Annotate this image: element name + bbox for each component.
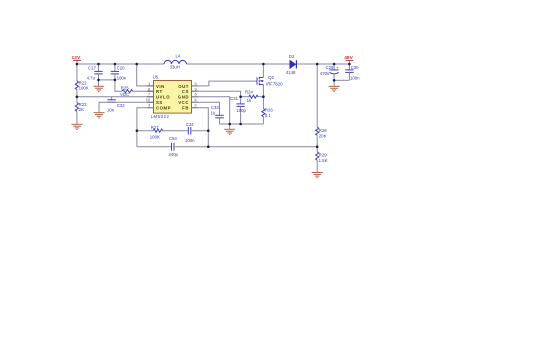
svg-text:6: 6 (195, 92, 197, 97)
svg-text:FB: FB (182, 105, 189, 110)
svg-text:100n: 100n (117, 76, 127, 81)
svg-text:D2: D2 (289, 54, 295, 59)
wire UVLO (77, 96, 154, 98)
resistor R28 (316, 127, 328, 147)
svg-text:1.5K: 1.5K (319, 158, 328, 163)
capacitor C31 (230, 96, 246, 124)
node VDC label (120, 92, 129, 97)
wire Q2 source to R26 (262, 97, 264, 109)
wire CS (192, 91, 241, 97)
ground under C17 (93, 86, 104, 91)
svg-text:1u: 1u (211, 111, 216, 116)
svg-text:340p: 340p (168, 152, 178, 157)
resistor R24 (241, 90, 264, 104)
svg-text:0.1: 0.1 (265, 113, 272, 118)
U5 pin names left (156, 84, 171, 111)
resistor R25 (121, 86, 154, 93)
svg-text:3: 3 (148, 103, 150, 108)
svg-text:33uH: 33uH (170, 64, 180, 69)
wire C17 bottom to ground (98, 80, 100, 86)
capacitor C34 (185, 122, 208, 143)
svg-text:Q2: Q2 (268, 75, 274, 80)
svg-text:C20: C20 (117, 65, 125, 70)
resistor R26 (262, 108, 274, 125)
junction dots (76, 63, 351, 148)
svg-text:C29: C29 (326, 65, 334, 70)
svg-text:100p: 100p (236, 108, 246, 113)
svg-text:SS: SS (156, 100, 163, 105)
svg-text:C33: C33 (211, 105, 219, 110)
wire ground stub (229, 124, 231, 129)
wire top rail right (297, 63, 349, 65)
wire C29-C30 bottoms (334, 79, 349, 81)
ground under C29 (329, 86, 340, 91)
inductor L4 (164, 54, 187, 70)
svg-text:4.7u: 4.7u (87, 76, 96, 81)
diode D2 (286, 54, 297, 75)
U5 pin numbers right (195, 81, 198, 108)
op-amp U5 LM5022 body (151, 75, 192, 120)
svg-text:7: 7 (148, 92, 150, 97)
svg-text:C30: C30 (351, 65, 359, 70)
transistor Q2 (257, 64, 283, 97)
wire top rail left (77, 63, 164, 65)
U5 pin numbers left (146, 81, 151, 108)
svg-text:R24: R24 (245, 90, 253, 95)
svg-text:C31: C31 (230, 96, 238, 101)
power port 12V (72, 55, 82, 64)
ground under R23 (72, 124, 83, 129)
wire C20 bottom to R25 (115, 80, 122, 91)
wire OUT to gate (192, 81, 257, 86)
svg-text:C17: C17 (88, 65, 96, 70)
svg-text:R27: R27 (151, 125, 159, 130)
svg-text:20K: 20K (319, 133, 327, 138)
resistor R23 (75, 97, 87, 124)
svg-text:VCC: VCC (178, 100, 189, 105)
svg-text:100n: 100n (350, 76, 360, 81)
svg-text:470u: 470u (320, 71, 330, 76)
ground under SS wire (93, 113, 104, 118)
svg-text:C53: C53 (169, 136, 177, 141)
wire SS to ground (99, 102, 154, 112)
svg-text:100n: 100n (185, 138, 195, 143)
capacitor C29 (320, 64, 339, 80)
svg-text:RT: RT (156, 89, 163, 94)
wire VCC pin (192, 102, 220, 115)
svg-text:10n: 10n (107, 108, 115, 113)
wire COMP drop (137, 108, 154, 147)
capacitor C17 (87, 64, 103, 81)
svg-text:R29: R29 (319, 153, 327, 158)
svg-text:2K: 2K (79, 107, 84, 112)
svg-text:3: 3 (195, 81, 197, 86)
svg-text:C34: C34 (186, 122, 194, 127)
svg-text:R28: R28 (319, 128, 327, 133)
resistor R29 (316, 147, 328, 173)
wire C17-C20 bottoms (99, 79, 115, 81)
svg-text:CS: CS (182, 89, 189, 94)
svg-text:2: 2 (195, 103, 197, 108)
wire top rail mid (187, 63, 290, 65)
power port 48V (344, 55, 353, 64)
capacitor C20 (111, 64, 127, 81)
wire C29 bottom ground stub (333, 80, 335, 86)
wire output divider riser (316, 64, 318, 127)
resistor R27 (137, 125, 188, 140)
resistor R22 (75, 64, 88, 97)
capacitor C30 (345, 64, 360, 81)
svg-text:IRF7820: IRF7820 (266, 81, 283, 86)
svg-text:VIN: VIN (156, 84, 165, 89)
U5 pin stubs (147, 86, 199, 108)
svg-text:9: 9 (195, 86, 197, 91)
capacitor C53 (137, 136, 317, 157)
svg-text:100K: 100K (150, 135, 160, 140)
capacitor C33 (211, 105, 224, 124)
svg-text:GND: GND (178, 95, 189, 100)
svg-text:1: 1 (148, 81, 150, 86)
capacitor C32 (107, 97, 125, 113)
svg-text:COMP: COMP (156, 105, 171, 110)
wire ground bus (220, 123, 264, 125)
wire VIN riser (137, 64, 154, 86)
svg-text:U5: U5 (153, 75, 159, 80)
svg-text:8: 8 (148, 86, 150, 91)
ground under R29 (312, 173, 323, 178)
svg-text:C32: C32 (117, 103, 125, 108)
svg-text:100K: 100K (79, 85, 89, 90)
ground under bus (224, 129, 235, 134)
svg-text:4148: 4148 (286, 70, 296, 75)
wire GND pin down (192, 97, 230, 124)
wire FB drop (192, 108, 209, 147)
svg-text:L4: L4 (176, 54, 181, 59)
svg-text:LM5022: LM5022 (151, 114, 170, 119)
svg-text:UVLO: UVLO (156, 95, 170, 100)
svg-text:OUT: OUT (178, 84, 189, 89)
svg-text:R25: R25 (121, 86, 129, 91)
svg-text:R26: R26 (265, 108, 273, 113)
U5 pin names right (178, 84, 189, 111)
